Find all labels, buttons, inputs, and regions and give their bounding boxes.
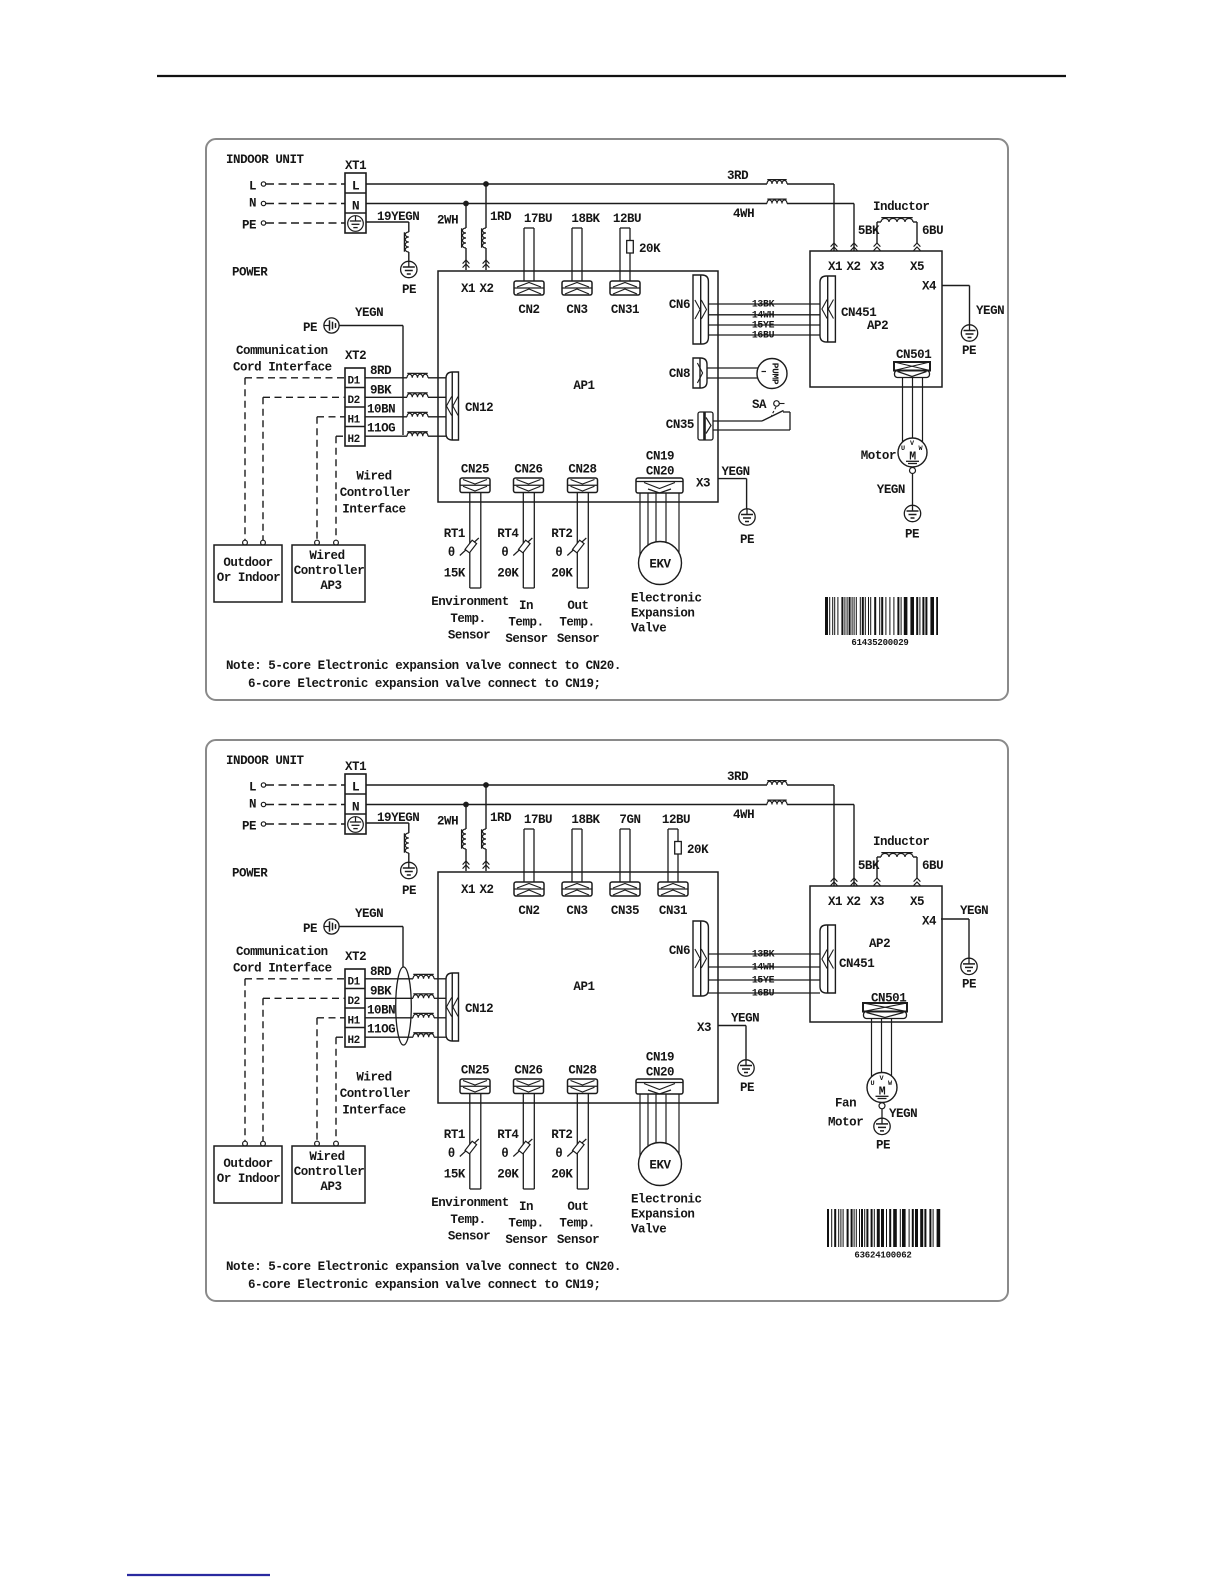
connector CN6 label — [669, 298, 690, 312]
wire to EKV — [665, 1094, 667, 1143]
junction on L rail — [484, 783, 489, 788]
label PE at X3 — [740, 1081, 754, 1095]
wire 15YE label — [752, 320, 775, 331]
svg-text:H1: H1 — [348, 1016, 361, 1028]
label PE under XT1 — [402, 283, 416, 297]
terminal block XT1 label — [345, 159, 366, 173]
wire PE dashed lead — [266, 222, 345, 224]
wire CN501 to fan motor — [891, 1019, 893, 1076]
svg-text:Cord Interface: Cord Interface — [233, 361, 332, 375]
wire 14WH — [708, 966, 820, 968]
svg-text:16BU: 16BU — [752, 988, 775, 999]
svg-text:θ: θ — [448, 1147, 455, 1161]
inductor coil — [881, 853, 913, 857]
svg-text:Outdoor: Outdoor — [223, 1157, 272, 1171]
svg-text:6BU: 6BU — [922, 224, 943, 238]
svg-text:V: V — [910, 440, 915, 448]
svg-text:9BK: 9BK — [370, 384, 392, 398]
connector CN8 — [693, 358, 707, 388]
svg-text:PE: PE — [876, 1139, 890, 1153]
box Outdoor Or Indoor — [214, 545, 282, 602]
svg-text:PE: PE — [242, 820, 256, 834]
dashed wire D1 — [243, 378, 345, 545]
wire 16BU — [708, 334, 820, 336]
svg-text:20K: 20K — [551, 1168, 573, 1182]
arrow into AP1 X1 — [463, 260, 470, 268]
wire to EKV — [678, 1094, 680, 1154]
svg-text:4WH: 4WH — [733, 207, 754, 221]
svg-text:XT1: XT1 — [345, 159, 366, 173]
motor M — [898, 438, 927, 467]
svg-text:EKV: EKV — [649, 558, 671, 572]
label Out Temp. Sensor — [557, 1200, 599, 1247]
ground PE at X4 — [961, 958, 977, 974]
pin X1 of AP1 — [461, 883, 475, 897]
svg-text:X4: X4 — [922, 915, 937, 929]
note line 2 — [248, 1278, 601, 1292]
svg-text:Electronic: Electronic — [631, 1193, 702, 1207]
coil on 19YEGN wire — [404, 833, 408, 853]
svg-text:PE: PE — [402, 884, 416, 898]
pin X2 of AP2 — [846, 260, 860, 274]
pin X3 of AP1 — [696, 477, 710, 491]
board AP1 label — [573, 379, 594, 393]
wire 10BN — [365, 1017, 446, 1019]
svg-text:X2: X2 — [479, 883, 493, 897]
node N — [261, 802, 265, 806]
svg-text:In: In — [519, 1200, 533, 1214]
PE badge — [324, 919, 339, 934]
coil on 1RD wire — [482, 228, 486, 248]
svg-text:Sensor: Sensor — [448, 629, 490, 643]
label Fan — [835, 1097, 856, 1111]
wire 13BK label — [752, 949, 775, 960]
svg-text:CN8: CN8 — [669, 367, 690, 381]
coil on 4WH wire — [767, 199, 787, 203]
label Electronic Expansion Valve — [631, 1193, 702, 1237]
arrow into AP1 X2 — [483, 260, 490, 268]
svg-text:CN25: CN25 — [461, 463, 489, 477]
svg-text:PE: PE — [740, 1081, 754, 1095]
connector CN35 label — [666, 418, 694, 432]
connector CN8 label — [669, 367, 690, 381]
board AP1 — [438, 271, 718, 502]
svg-text:Cord Interface: Cord Interface — [233, 962, 332, 976]
ferrite on 9BK — [413, 994, 434, 998]
ferrite on 9BK — [407, 393, 428, 397]
plug wire 12BU — [662, 813, 709, 882]
svg-text:Wired: Wired — [356, 470, 391, 484]
svg-text:Or Indoor: Or Indoor — [217, 571, 280, 585]
svg-text:D2: D2 — [348, 395, 360, 407]
node PE — [261, 822, 265, 826]
svg-text:12BU: 12BU — [613, 212, 641, 226]
wire 19YEGN label — [377, 210, 419, 224]
label Communication Cord Interface — [233, 945, 332, 976]
connector CN501 — [894, 362, 930, 378]
wire 6BU — [913, 857, 917, 878]
node L — [261, 783, 265, 787]
label POWER — [232, 266, 268, 280]
label Environment Temp. Sensor — [431, 1196, 509, 1244]
wire 13BK — [708, 303, 820, 305]
wire to EKV — [639, 493, 641, 555]
connector CN28 — [568, 1079, 598, 1094]
connector CN451 label — [841, 306, 876, 320]
arrow into AP2 X2 — [851, 878, 858, 886]
svg-text:13BK: 13BK — [752, 299, 775, 310]
svg-text:AP3: AP3 — [320, 1180, 341, 1194]
wire 110G label — [367, 422, 395, 436]
note line 1 — [226, 659, 621, 673]
svg-text:X3: X3 — [696, 477, 710, 491]
svg-text:Interface: Interface — [342, 1104, 405, 1118]
pin X1 of AP2 — [828, 895, 842, 909]
arrow into AP1 X2 — [483, 861, 490, 869]
wire 5BK — [877, 222, 881, 243]
svg-text:YEGN: YEGN — [722, 465, 750, 479]
terminal block XT2 label — [345, 950, 366, 964]
wire 19YEGN — [366, 823, 409, 862]
svg-text:CN12: CN12 — [465, 1002, 493, 1016]
barcode 61435200029 — [825, 597, 938, 648]
connector CN28 — [568, 478, 598, 493]
svg-text:W: W — [888, 1080, 893, 1088]
wire L dashed lead — [266, 784, 345, 786]
svg-text:15K: 15K — [444, 1168, 466, 1182]
wire 2WH — [465, 204, 467, 271]
svg-text:17BU: 17BU — [524, 212, 552, 226]
svg-text:AP2: AP2 — [867, 319, 888, 333]
svg-text:63624100062: 63624100062 — [854, 1251, 911, 1261]
svg-text:In: In — [519, 599, 533, 613]
board AP2 — [810, 886, 942, 1022]
svg-text:RT1: RT1 — [444, 527, 465, 541]
svg-text:CN6: CN6 — [669, 944, 690, 958]
connector CN6 — [693, 275, 708, 344]
wire 6BU label — [922, 224, 943, 238]
connector CN6 — [693, 921, 708, 996]
svg-text:Temp.: Temp. — [559, 1217, 594, 1231]
svg-text:RT1: RT1 — [444, 1128, 465, 1142]
label YEGN at badge — [355, 907, 383, 921]
wire to EKV — [665, 493, 667, 542]
svg-text:PE: PE — [303, 922, 317, 936]
wire 19YEGN — [366, 222, 409, 261]
svg-text:Sensor: Sensor — [557, 632, 599, 646]
svg-text:POWER: POWER — [232, 867, 268, 881]
dashed wire H2 — [334, 436, 345, 545]
thermistor RT2 — [551, 1128, 586, 1182]
wire 16BU label — [752, 330, 775, 341]
diagram frame — [206, 139, 1008, 700]
pin X5 of AP2 — [910, 895, 924, 909]
svg-text:2WH: 2WH — [437, 214, 458, 228]
svg-text:1RD: 1RD — [490, 811, 512, 825]
svg-text:Sensor: Sensor — [448, 1230, 490, 1244]
wire 4WH to AP2 X2 — [787, 805, 854, 887]
label YEGN at X3 — [722, 465, 750, 479]
wire 3RD to AP2 X1 — [787, 184, 834, 251]
board AP2 — [810, 251, 942, 387]
terminal PE label — [242, 820, 256, 834]
svg-text:CN35: CN35 — [611, 904, 639, 918]
note line 2 — [248, 677, 601, 691]
wire to EKV — [655, 1094, 657, 1143]
wire 4WH label — [733, 207, 754, 221]
wire CN8 to pump upper — [707, 367, 758, 369]
label Motor — [828, 1116, 863, 1130]
connector CN19 CN20 — [636, 478, 683, 493]
terminal block XT2 — [345, 969, 365, 1047]
svg-text:PE: PE — [740, 533, 754, 547]
svg-text:SA: SA — [752, 398, 767, 412]
wire 1RD — [485, 785, 487, 871]
label YEGN at X3 — [731, 1012, 759, 1026]
svg-text:N: N — [249, 197, 256, 211]
svg-text:Controller: Controller — [294, 564, 365, 578]
svg-text:θ: θ — [555, 1147, 562, 1161]
svg-text:CN28: CN28 — [568, 1064, 596, 1078]
svg-text:10BN: 10BN — [367, 1004, 395, 1018]
label Environment Temp. Sensor — [431, 595, 509, 643]
ground PE at X3 — [739, 509, 755, 525]
connector CN451 — [820, 276, 835, 342]
arrow into AP2 X5 — [914, 243, 921, 251]
svg-text:Sensor: Sensor — [505, 1233, 547, 1247]
svg-text:CN3: CN3 — [566, 303, 587, 317]
pin X4 of AP2 — [922, 280, 937, 294]
svg-text:PUMP: PUMP — [769, 363, 780, 385]
label YEGN at fan motor — [889, 1107, 917, 1121]
svg-text:CN26: CN26 — [514, 1064, 542, 1078]
svg-text:Out: Out — [567, 1200, 588, 1214]
connector CN451 — [820, 925, 835, 993]
connector CN26 label — [514, 1064, 542, 1078]
svg-text:N: N — [352, 199, 359, 214]
svg-text:Interface: Interface — [342, 503, 405, 517]
svg-text:CN451: CN451 — [839, 957, 874, 971]
wire 5BK label — [858, 859, 880, 873]
svg-text:X2: X2 — [846, 895, 860, 909]
junction on N rail — [464, 802, 469, 807]
board AP1 label — [573, 980, 594, 994]
svg-text:7GN: 7GN — [619, 813, 640, 827]
svg-text:CN20: CN20 — [646, 1066, 674, 1080]
sensor wires under CN25 — [470, 493, 481, 588]
svg-text:20K: 20K — [639, 242, 661, 256]
wire 8RD label — [370, 364, 392, 378]
connector CN12 — [446, 973, 459, 1041]
terminal block XT2 label — [345, 349, 366, 363]
svg-text:YEGN: YEGN — [976, 304, 1004, 318]
wire 10BN label — [367, 1004, 395, 1018]
svg-text:X3: X3 — [870, 260, 884, 274]
svg-text:YEGN: YEGN — [889, 1107, 917, 1121]
pin X5 of AP2 — [910, 260, 924, 274]
svg-text:10BN: 10BN — [367, 403, 395, 417]
terminal L label — [249, 180, 256, 194]
wire 15YE — [708, 324, 820, 326]
connector CN12 label — [465, 1002, 493, 1016]
svg-text:8RD: 8RD — [370, 364, 392, 378]
wire PE badge YEGN — [339, 927, 403, 968]
terminal PE label — [242, 219, 256, 233]
svg-text:18BK: 18BK — [571, 813, 600, 827]
svg-text:D1: D1 — [348, 977, 361, 989]
svg-text:1RD: 1RD — [490, 210, 512, 224]
wire 2WH — [465, 805, 467, 872]
connector CN25 label — [461, 463, 489, 477]
wire CN501 to motor — [912, 378, 914, 439]
pin X3 of AP1 — [697, 1021, 711, 1035]
svg-text:14WH: 14WH — [752, 962, 775, 973]
svg-text:CN6: CN6 — [669, 298, 690, 312]
svg-text:U: U — [870, 1080, 874, 1088]
svg-text:EKV: EKV — [649, 1159, 671, 1173]
svg-text:4WH: 4WH — [733, 808, 754, 822]
wire CN35 to SA upper — [713, 420, 762, 422]
svg-text:L: L — [352, 179, 360, 194]
pin X3 of AP2 — [870, 895, 884, 909]
valve EKV — [639, 1143, 682, 1186]
wire X3 to PE — [718, 1026, 746, 1060]
connector CN28 label — [568, 463, 596, 477]
barcode 63624100062 — [827, 1209, 940, 1261]
wire to EKV — [639, 1094, 641, 1156]
wire 9BK label — [370, 985, 392, 999]
ground PE under XT1 — [401, 862, 417, 878]
switch SA label — [752, 398, 767, 412]
cable shield ellipse — [396, 967, 412, 1045]
svg-text:11OG: 11OG — [367, 422, 395, 436]
ferrite on 8RD — [407, 373, 428, 377]
node L — [261, 182, 265, 186]
svg-text:PE: PE — [303, 321, 317, 335]
fan motor M — [867, 1073, 897, 1103]
arrow into AP2 X5 — [914, 878, 921, 886]
svg-text:N: N — [352, 800, 359, 815]
sensor wires under CN26 — [523, 493, 534, 588]
thermistor RT1 — [444, 527, 479, 581]
arrow into AP2 X3 — [874, 243, 881, 251]
label Inductor — [873, 835, 929, 849]
svg-text:PE: PE — [905, 528, 919, 542]
switch SA — [762, 401, 785, 421]
connector CN25 — [460, 1079, 490, 1094]
arrow into AP2 X1 — [831, 878, 838, 886]
svg-text:Environment: Environment — [431, 595, 509, 609]
wire 9BK label — [370, 384, 392, 398]
connector CN3 — [562, 281, 592, 317]
PE badge — [324, 318, 339, 333]
wire 14WH label — [752, 309, 775, 320]
box Outdoor Or Indoor — [214, 1146, 282, 1203]
svg-text:POWER: POWER — [232, 266, 268, 280]
svg-text:AP1: AP1 — [573, 980, 594, 994]
wire 15YE — [708, 979, 820, 981]
wire 8RD — [365, 978, 446, 980]
plug wire 12BU — [613, 212, 661, 281]
plug wire 17BU — [524, 212, 552, 281]
svg-text:X2: X2 — [846, 260, 860, 274]
svg-text:YEGN: YEGN — [731, 1012, 759, 1026]
note line 1 — [226, 1260, 621, 1274]
connector CN19 CN20 — [636, 1079, 683, 1094]
connector CN501 — [863, 1003, 907, 1019]
svg-text:2WH: 2WH — [437, 815, 458, 829]
svg-text:Environment: Environment — [431, 1196, 509, 1210]
svg-text:Inductor: Inductor — [873, 835, 929, 849]
svg-text:6BU: 6BU — [922, 859, 943, 873]
arrow into AP2 X2 — [851, 243, 858, 251]
coil on 3RD wire — [767, 180, 787, 184]
label PE at badge — [303, 922, 317, 936]
wire 10BN — [365, 416, 446, 418]
svg-text:X5: X5 — [910, 260, 924, 274]
connector CN31 — [658, 882, 688, 918]
wire to EKV — [678, 493, 680, 553]
pin X1 of AP2 — [828, 260, 842, 274]
ground PE under XT1 — [401, 261, 417, 277]
svg-text:Fan: Fan — [835, 1097, 856, 1111]
connector CN35 — [698, 412, 713, 440]
wire 16BU label — [752, 988, 775, 999]
svg-text:XT1: XT1 — [345, 760, 366, 774]
svg-text:CN501: CN501 — [896, 348, 931, 362]
svg-text:Or Indoor: Or Indoor — [217, 1172, 280, 1186]
pin X2 of AP2 — [846, 895, 860, 909]
terminal block XT1 — [345, 774, 366, 834]
svg-text:YEGN: YEGN — [355, 306, 383, 320]
svg-text:15K: 15K — [444, 567, 466, 581]
wire 5BK — [877, 857, 881, 878]
wire 10BN label — [367, 403, 395, 417]
terminal block XT1 label — [345, 760, 366, 774]
svg-text:U: U — [901, 445, 905, 453]
svg-text:H2: H2 — [348, 434, 360, 446]
board AP2 label — [867, 319, 888, 333]
terminal N label — [249, 197, 256, 211]
wire to EKV — [647, 1094, 649, 1146]
svg-text:RT2: RT2 — [551, 527, 572, 541]
svg-text:AP3: AP3 — [320, 579, 341, 593]
svg-text:XT2: XT2 — [345, 349, 366, 363]
pin X2 of AP1 — [479, 282, 493, 296]
svg-text:PE: PE — [402, 283, 416, 297]
svg-text:X1: X1 — [828, 260, 842, 274]
svg-text:X3: X3 — [870, 895, 884, 909]
wire N rail — [366, 203, 767, 205]
connector CN19 CN20 labels — [646, 450, 674, 479]
wire 8RD label — [370, 965, 392, 979]
terminal block XT1 — [345, 173, 366, 233]
arrow into AP1 X1 — [463, 861, 470, 869]
sensor wires under CN26 — [523, 1094, 534, 1189]
label POWER — [232, 867, 268, 881]
svg-text:Controller: Controller — [340, 1087, 411, 1101]
dashed wire H2 — [334, 1037, 345, 1146]
label PE under motor — [905, 528, 919, 542]
label Motor — [861, 449, 896, 463]
svg-text:16BU: 16BU — [752, 330, 775, 341]
svg-text:Wired: Wired — [309, 549, 344, 563]
svg-text:RT4: RT4 — [497, 1128, 519, 1142]
svg-text:Out: Out — [567, 599, 588, 613]
wire 3RD label — [727, 169, 749, 183]
thermistor RT4 — [497, 1128, 532, 1182]
sensor wires under CN25 — [470, 1094, 481, 1189]
